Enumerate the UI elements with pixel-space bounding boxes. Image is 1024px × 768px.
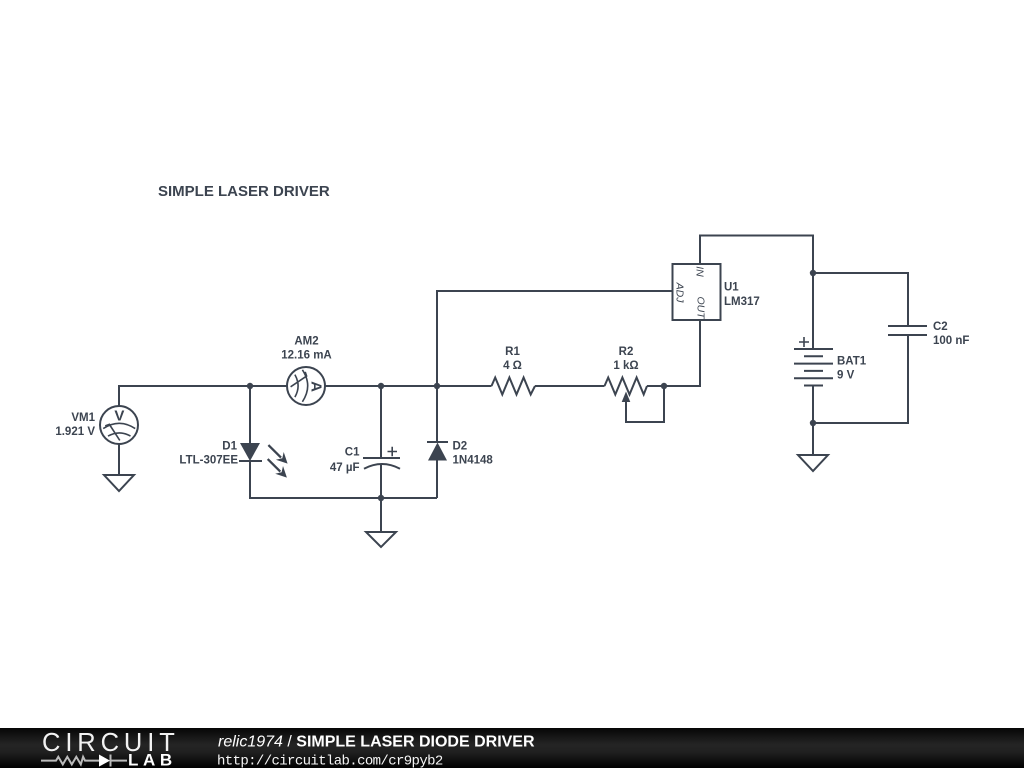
svg-text:C1: C1 (345, 447, 360, 459)
svg-text:9 V: 9 V (837, 370, 855, 382)
svg-text:1 kΩ: 1 kΩ (613, 360, 638, 372)
svg-text:D1: D1 (222, 441, 237, 453)
svg-text:R2: R2 (619, 346, 634, 358)
svg-text:1.921 V: 1.921 V (55, 426, 95, 438)
svg-text:D2: D2 (453, 441, 468, 453)
svg-text:V: V (114, 407, 124, 424)
svg-text:1N4148: 1N4148 (453, 455, 494, 467)
svg-text:U1: U1 (724, 282, 739, 294)
svg-text:C2: C2 (933, 321, 948, 333)
svg-text:LM317: LM317 (724, 296, 760, 308)
svg-text:VM1: VM1 (71, 412, 95, 424)
svg-text:IN: IN (694, 266, 706, 277)
svg-text:LTL-307EE: LTL-307EE (179, 455, 238, 467)
svg-text:12.16 mA: 12.16 mA (281, 350, 332, 362)
svg-text:ADJ: ADJ (674, 282, 686, 304)
svg-text:http://circuitlab.com/cr9pyb2: http://circuitlab.com/cr9pyb2 (217, 753, 443, 768)
svg-text:47 µF: 47 µF (330, 462, 360, 474)
svg-text:LAB: LAB (128, 751, 177, 768)
svg-text:R1: R1 (505, 346, 520, 358)
svg-text:AM2: AM2 (294, 336, 318, 348)
svg-text:relic1974 / SIMPLE LASER DIODE: relic1974 / SIMPLE LASER DIODE DRIVER (218, 734, 535, 751)
svg-text:BAT1: BAT1 (837, 356, 867, 368)
svg-text:SIMPLE LASER DRIVER: SIMPLE LASER DRIVER (158, 183, 330, 200)
svg-text:A: A (308, 381, 325, 392)
svg-text:100 nF: 100 nF (933, 335, 969, 347)
svg-text:OUT: OUT (695, 297, 707, 321)
svg-text:4 Ω: 4 Ω (503, 360, 522, 372)
